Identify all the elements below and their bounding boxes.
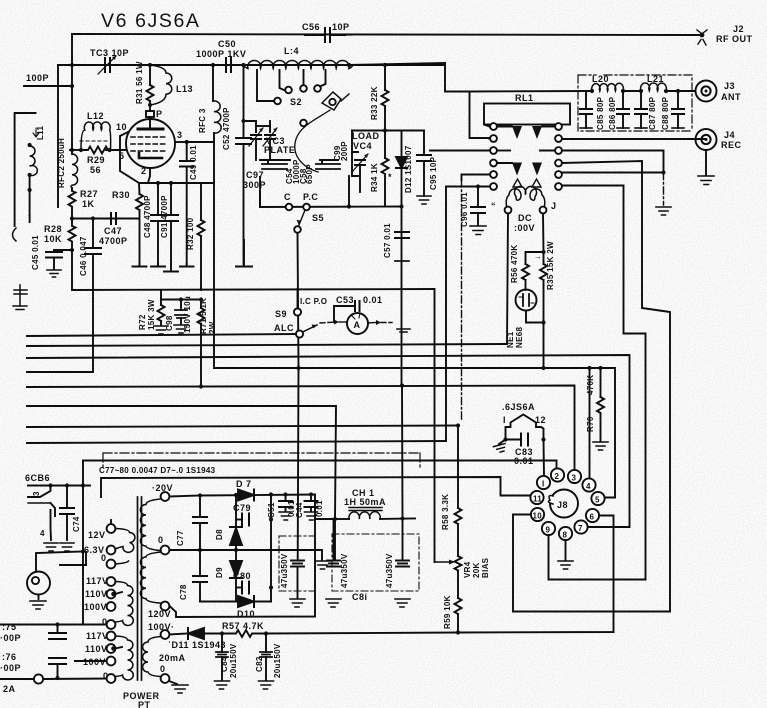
- svg-text:20K: 20K: [472, 562, 481, 578]
- wire pin2 cathode to rail: [148, 168, 150, 183]
- svg-text:·00P: ·00P: [0, 633, 21, 643]
- svg-text:117V: 117V: [86, 576, 109, 586]
- ground J4: [698, 176, 714, 185]
- node C77 top: [198, 493, 202, 497]
- node CH1 right: [400, 516, 404, 520]
- svg-text:C77: C77: [176, 530, 185, 546]
- wire grid line y65: [58, 64, 445, 66]
- ground 6CB6 pin4: [44, 543, 58, 551]
- svg-text:C56: C56: [302, 22, 320, 32]
- svg-text:11: 11: [533, 495, 542, 504]
- capacitor C46 0.047: [79, 216, 101, 372]
- svg-text:0: 0: [102, 617, 108, 627]
- svg-text:R71 5.1K: R71 5.1K: [199, 298, 208, 334]
- svg-text:TC3 10P: TC3 10P: [90, 48, 129, 58]
- svg-text:R56 470K: R56 470K: [510, 245, 519, 283]
- svg-text:47u350V: 47u350V: [340, 553, 349, 588]
- socket pin 2: [551, 468, 564, 481]
- relay contact row5 right: [555, 170, 666, 205]
- wire relay coil right down: [542, 214, 545, 253]
- tube 6CB6 partial: [28, 486, 55, 541]
- socket J8 center: [549, 490, 578, 518]
- svg-text:·20V: ·20V: [152, 483, 173, 493]
- svg-text:1K: 1K: [82, 199, 95, 209]
- wire 6CB6 plate lead: [28, 485, 90, 487]
- capacitor C87 80P: [635, 91, 657, 130]
- bus line7 to psu: [27, 406, 336, 519]
- wire L14 to relay corner: [349, 63, 445, 65]
- svg-text:LOAD: LOAD: [352, 131, 380, 141]
- wire R72 top feed: [160, 290, 162, 300]
- connector J2: [697, 24, 753, 45]
- capacitor C52 4700P: [222, 65, 251, 267]
- svg-text:NE68: NE68: [515, 327, 524, 348]
- variable capacitor VC3: [244, 121, 296, 160]
- svg-text:C78: C78: [179, 584, 188, 600]
- capacitor C49 0.01: [175, 140, 214, 264]
- svg-text:R35 15K 2W: R35 15K 2W: [546, 241, 555, 290]
- svg-text:0: 0: [101, 553, 107, 563]
- svg-text:110V: 110V: [85, 644, 108, 654]
- relay armature row1: [512, 126, 542, 139]
- svg-text:2: 2: [555, 472, 560, 481]
- wire relay coil left down: [505, 214, 508, 345]
- wire C83 to pin1: [543, 440, 546, 477]
- svg-text:C96 0.01: C96 0.01: [460, 192, 469, 227]
- ground C74: [60, 543, 74, 551]
- svg-text:4: 4: [586, 482, 591, 491]
- svg-text:8: 8: [563, 531, 568, 540]
- node bus5 pin4: [587, 366, 591, 370]
- svg-text:2A: 2A: [3, 684, 16, 694]
- svg-text:3: 3: [572, 474, 577, 483]
- wire bridge mid ground: [236, 548, 332, 569]
- svg-text:3: 3: [32, 491, 41, 496]
- svg-text:0: 0: [160, 664, 166, 674]
- wire bus10 corner down: [82, 461, 84, 486]
- relay contact row4 left: [490, 160, 512, 167]
- tube V6 cathode: [139, 153, 162, 158]
- wire rail jog: [315, 495, 335, 520]
- diode D7: [236, 479, 254, 501]
- capacitor C88 80P: [661, 89, 684, 130]
- svg-text:RL1: RL1: [515, 93, 534, 103]
- node bus5 NE: [541, 366, 545, 370]
- svg-text:2: 2: [141, 166, 147, 176]
- svg-text:L12: L12: [87, 111, 104, 121]
- svg-text:J2: J2: [733, 24, 744, 34]
- svg-text:RF OUT: RF OUT: [716, 34, 753, 44]
- node VC4 bottom: [347, 204, 351, 208]
- diode D10: [200, 596, 271, 619]
- wire pin11 feed: [101, 477, 531, 497]
- diode D9: [215, 548, 242, 602]
- svg-text:100P: 100P: [26, 73, 49, 83]
- capacitor C47 4700P: [99, 213, 128, 246]
- inductor L21: [641, 74, 667, 91]
- wire cluster links: [259, 192, 261, 207]
- resistor R35 15K 2W: [534, 241, 555, 322]
- tube V6 grids: [131, 137, 167, 151]
- bus line10 to pin2: [83, 461, 557, 470]
- capacitor C91 4700P: [160, 183, 178, 264]
- wire 120V top to bridge rail: [170, 496, 201, 497]
- svg-text:3: 3: [177, 130, 183, 140]
- node filter c: [639, 89, 643, 93]
- svg-text:20mA: 20mA: [159, 653, 186, 663]
- svg-text:P.C: P.C: [303, 192, 318, 202]
- resistor R34 1K: [370, 131, 392, 207]
- svg-text:BIAS: BIAS: [481, 557, 490, 578]
- socket pin 5: [591, 492, 604, 505]
- wire mains selects: [83, 624, 107, 626]
- ground bus y266: [133, 264, 194, 272]
- svg-text:C48 4700P: C48 4700P: [143, 195, 152, 238]
- svg-text:100V·: 100V·: [148, 622, 175, 632]
- svg-text:DC: DC: [518, 213, 532, 223]
- inductor L13: [150, 65, 193, 105]
- transformer primary winding lower: [83, 631, 133, 683]
- svg-text:C77~80 0.0047 D7~.0 1S1943: C77~80 0.0047 D7~.0 1S1943: [99, 466, 216, 475]
- ground bus under C97: [236, 240, 252, 267]
- svg-text:I: I: [503, 415, 506, 425]
- wire plate line y290: [72, 289, 435, 290]
- svg-text:7: 7: [578, 524, 583, 533]
- svg-text:4: 4: [40, 529, 45, 538]
- svg-text:C49 0.01: C49 0.01: [189, 145, 198, 180]
- svg-text:C46 0.047: C46 0.047: [79, 236, 88, 276]
- node 6CB6 b: [81, 483, 85, 487]
- node C91 top: [169, 181, 173, 185]
- node filter b: [621, 89, 625, 93]
- svg-text:*: *: [388, 172, 392, 182]
- svg-text:VR4: VR4: [463, 561, 472, 578]
- resistor R28 10K: [44, 219, 76, 251]
- node R33 bottom: [383, 128, 387, 132]
- tube V6 envelope: [126, 119, 175, 168]
- node rail218: [70, 216, 74, 220]
- transformer heater winding: [143, 630, 170, 683]
- svg-text:470K: 470K: [586, 375, 595, 395]
- bus line6 to pin3: [27, 386, 575, 471]
- svg-text:I.C P.O: I.C P.O: [300, 297, 327, 306]
- node D8 top: [234, 493, 238, 497]
- connector J3 ANT: [696, 81, 742, 103]
- wire D12 line continues: [401, 386, 404, 519]
- svg-text:C53: C53: [336, 295, 354, 305]
- resistor R30: [112, 183, 143, 264]
- node R56 R35 top: [541, 250, 545, 254]
- capacitor C53 0.01: [334, 295, 383, 322]
- capacitor C82 20u150V: [255, 634, 282, 690]
- svg-text:20u150V: 20u150V: [229, 643, 238, 678]
- relay contact row5 left: [462, 171, 497, 420]
- svg-text:C84: C84: [220, 656, 229, 672]
- node bus6 D12: [400, 383, 404, 387]
- wire cathode rail y183: [139, 182, 214, 184]
- svg-text:100Vʾ: 100Vʾ: [83, 657, 110, 667]
- svg-text:D8: D8: [215, 529, 224, 540]
- svg-text:C: C: [284, 192, 291, 202]
- resistor R58 3.3K: [441, 426, 462, 557]
- wire pin8 ground: [558, 540, 573, 569]
- transformer primary top terminal 120V: [152, 483, 173, 501]
- svg-text:L11: L11: [36, 126, 45, 140]
- socket pin 11: [530, 491, 543, 504]
- svg-text:C52 4700P: C52 4700P: [222, 107, 231, 150]
- bus line4 short: [27, 371, 92, 373]
- relay contact row2 right: [555, 135, 706, 142]
- diode D12 1S1007: [396, 131, 413, 386]
- capacitor C85 80P: [580, 91, 605, 130]
- svg-text:C95 10P: C95 10P: [429, 156, 438, 190]
- svg-text::00V: :00V: [514, 223, 535, 233]
- svg-text:10: 10: [533, 512, 543, 521]
- switch S5 contact PC: [303, 192, 318, 210]
- svg-text:47u350V: 47u350V: [385, 553, 394, 588]
- capacitor C51 0.01: [267, 492, 296, 520]
- wire pin10 route: [513, 515, 670, 612]
- svg-text:150V 10u: 150V 10u: [183, 296, 192, 333]
- svg-text:1000P 1KV: 1000P 1KV: [196, 49, 246, 59]
- transformer PT core: [138, 497, 142, 680]
- meter A: [320, 313, 410, 334]
- node C79 right: [269, 517, 273, 521]
- switch S2 rotor: [295, 92, 349, 172]
- svg-text:R29: R29: [87, 155, 105, 165]
- svg-text:R72: R72: [138, 314, 147, 330]
- heater filament: [506, 415, 544, 440]
- svg-text:2W: 2W: [208, 321, 217, 334]
- dash box C81 big: [332, 534, 419, 591]
- wire pin4 drop: [589, 368, 591, 478]
- capacitor 100P input: [24, 73, 74, 88]
- switch S2 tap2: [280, 70, 292, 93]
- ground shield right: [656, 207, 671, 215]
- svg-text:ALC: ALC: [274, 323, 294, 333]
- capacitor C84 20u150V: [215, 634, 239, 690]
- capacitor C57 0.01: [383, 223, 409, 261]
- socket pin 3: [568, 470, 581, 483]
- resistor R72 15K 3W: [138, 299, 168, 334]
- diode D11 1S1943: [159, 628, 226, 663]
- svg-text:S9: S9: [275, 309, 287, 319]
- switch S2 tap3: [300, 70, 307, 92]
- svg-text:C98: C98: [165, 315, 174, 331]
- capacitor C80: [233, 571, 251, 594]
- node bus6 R71: [199, 384, 203, 388]
- capacitor C98 150V 10u: [161, 296, 192, 333]
- socket pin 6: [586, 509, 599, 522]
- svg-text:V6 6JS6A: V6 6JS6A: [101, 10, 201, 32]
- svg-text:NE1: NE1: [506, 331, 515, 348]
- capacitor 47u350V third: [385, 519, 410, 608]
- svg-text:10: 10: [116, 122, 127, 132]
- node filter d: [664, 89, 668, 93]
- socket pin 10: [531, 508, 544, 521]
- svg-text:117V: 117V: [86, 631, 109, 641]
- svg-text:D9: D9: [215, 567, 224, 578]
- svg-text:R70: R70: [586, 416, 595, 432]
- fuse 2A: [0, 674, 111, 694]
- node C45 branch: [70, 248, 74, 252]
- svg-text:J3: J3: [724, 81, 735, 91]
- transformer primary winding mid: [84, 576, 133, 629]
- svg-text:10K: 10K: [44, 234, 62, 244]
- svg-text:R58 3.3K: R58 3.3K: [441, 494, 450, 530]
- diode D8: [215, 495, 242, 550]
- capacitor C78: [179, 548, 207, 602]
- switch S5 lever: [294, 210, 324, 368]
- relay armature row4: [512, 163, 542, 176]
- svg-text:110V: 110V: [85, 589, 108, 599]
- svg-text:RFC2 250uH: RFC2 250uH: [57, 138, 66, 188]
- svg-text:C86 80P: C86 80P: [608, 96, 617, 130]
- wire filter midsection: [623, 90, 641, 92]
- svg-text:20u150V: 20u150V: [273, 643, 282, 678]
- svg-text:R31 56 1W: R31 56 1W: [135, 61, 144, 104]
- wire L12 node to x72: [70, 149, 81, 151]
- inductor L12: [80, 111, 111, 150]
- socket pin 1: [537, 476, 550, 489]
- dash box C77-80: [99, 453, 420, 475]
- svg-text:6CB6: 6CB6: [25, 473, 50, 483]
- inductor L14: [244, 46, 354, 69]
- resistor R59 10K: [443, 595, 462, 634]
- trimmer capacitor TC3 10P: [88, 48, 129, 74]
- connector J4 REC: [696, 129, 742, 150]
- svg-text:10P: 10P: [332, 22, 350, 32]
- wire 100V select: [82, 552, 84, 625]
- svg-text:→: →: [534, 252, 542, 261]
- svg-text:P: P: [156, 109, 163, 119]
- socket pin 7: [574, 520, 587, 533]
- svg-text:56: 56: [90, 165, 101, 175]
- svg-text:L:4: L:4: [284, 46, 299, 56]
- relay contact row6 right: [555, 183, 645, 579]
- wire J4 ground: [705, 150, 707, 175]
- svg-text:C57 0.01: C57 0.01: [383, 223, 392, 258]
- bus line2 to relay coil: [27, 344, 505, 346]
- svg-text:100V: 100V: [84, 602, 107, 612]
- capacitor C96 0.01: [460, 184, 486, 234]
- wire bridge top rail: [200, 495, 315, 496]
- resistor R57 4.7K: [220, 621, 458, 637]
- left edge cap b: [13, 285, 27, 310]
- wire VC4 to bus: [348, 176, 350, 207]
- svg-text:C87 80P: C87 80P: [648, 96, 657, 130]
- switch S5 contact C: [284, 192, 292, 210]
- wire S5 line to psu cap: [297, 368, 300, 561]
- svg-text:L13: L13: [176, 84, 193, 94]
- svg-text:J8: J8: [557, 500, 568, 510]
- wire pin10: [120, 132, 139, 183]
- svg-text:J4: J4: [724, 130, 735, 140]
- svg-text:0: 0: [158, 535, 164, 545]
- svg-text:.6JS6A: .6JS6A: [502, 402, 535, 412]
- socket pin 9: [542, 522, 555, 535]
- svg-text:D 7: D 7: [236, 479, 252, 489]
- svg-text:0: 0: [103, 671, 109, 681]
- svg-text:47u350V: 47u350V: [280, 553, 289, 588]
- relay coil: [491, 186, 557, 233]
- resistor R56 470K: [510, 245, 544, 290]
- wire D11 row: [170, 634, 188, 635]
- svg-text:6: 6: [590, 513, 595, 522]
- wire C75 rail: [0, 624, 83, 626]
- wire top rail to J2: [72, 34, 699, 86]
- wire LOAD line y130: [352, 130, 402, 132]
- wire lamp feed: [36, 486, 83, 572]
- svg-text:C88 80P: C88 80P: [661, 96, 670, 130]
- neon lamp NE1 NE68: [506, 290, 546, 349]
- svg-text::75: :75: [2, 622, 17, 632]
- wire C79 C80 column: [270, 495, 272, 602]
- wire x72 down to bus: [71, 250, 73, 290]
- capacitor C44 0.01: [295, 492, 324, 520]
- node 6CB6 a: [48, 483, 52, 487]
- svg-text:C50: C50: [218, 39, 236, 49]
- tube V6 plate: [138, 128, 163, 131]
- wire mains select lower: [75, 660, 107, 662]
- wire pin9 route: [549, 535, 646, 580]
- relay contact row1 right: [542, 123, 562, 130]
- svg-text:15K 3W: 15K 3W: [147, 299, 156, 330]
- svg-text:J: J: [551, 201, 557, 211]
- svg-text:R30: R30: [112, 190, 130, 200]
- svg-text:12V: 12V: [88, 530, 106, 540]
- svg-text:R27: R27: [80, 189, 98, 199]
- node rail C51: [269, 492, 273, 496]
- svg-text:300P: 300P: [243, 180, 266, 190]
- svg-text:5: 5: [595, 496, 600, 505]
- wire bus y207: [260, 206, 402, 209]
- svg-text:I: I: [542, 480, 545, 489]
- capacitor C75 1000P: [0, 622, 66, 643]
- resistor R71 5.1K 2W: [181, 297, 217, 386]
- relay release springs: [513, 179, 541, 187]
- svg-text:9: 9: [546, 526, 551, 535]
- svg-text:RFC 3: RFC 3: [198, 108, 207, 133]
- wire filter to J3: [666, 90, 695, 92]
- resistor R70 470K: [586, 368, 608, 450]
- ground C45: [47, 270, 61, 277]
- node L14 right: [347, 63, 351, 67]
- node plate P: [146, 103, 163, 127]
- heater pins: [503, 415, 546, 425]
- capacitor C48 4700P: [143, 183, 165, 264]
- left edge component stub: [13, 215, 30, 241]
- node S5 bus D12: [399, 204, 403, 208]
- svg-text:R59 10K: R59 10K: [443, 595, 452, 629]
- switch S9: [274, 289, 327, 338]
- svg-text:C47: C47: [104, 226, 122, 236]
- capacitor cluster C59 C99: [316, 141, 349, 169]
- inductor RFC3: [198, 65, 221, 368]
- resistor R27 1K: [69, 188, 99, 219]
- node filter a: [590, 89, 594, 93]
- ground heater: [493, 440, 506, 454]
- relay contact row3 left: [430, 147, 510, 154]
- node RFC2 top: [70, 148, 74, 152]
- svg-text:C97: C97: [246, 170, 264, 180]
- bus line1 to ALC: [27, 334, 296, 336]
- node C48 top: [156, 181, 160, 185]
- wire relay box top to filter: [470, 90, 593, 93]
- transformer secondary winding top: [140, 499, 161, 603]
- ground lamp: [30, 601, 46, 609]
- variable capacitor VC4 LOAD: [352, 131, 380, 193]
